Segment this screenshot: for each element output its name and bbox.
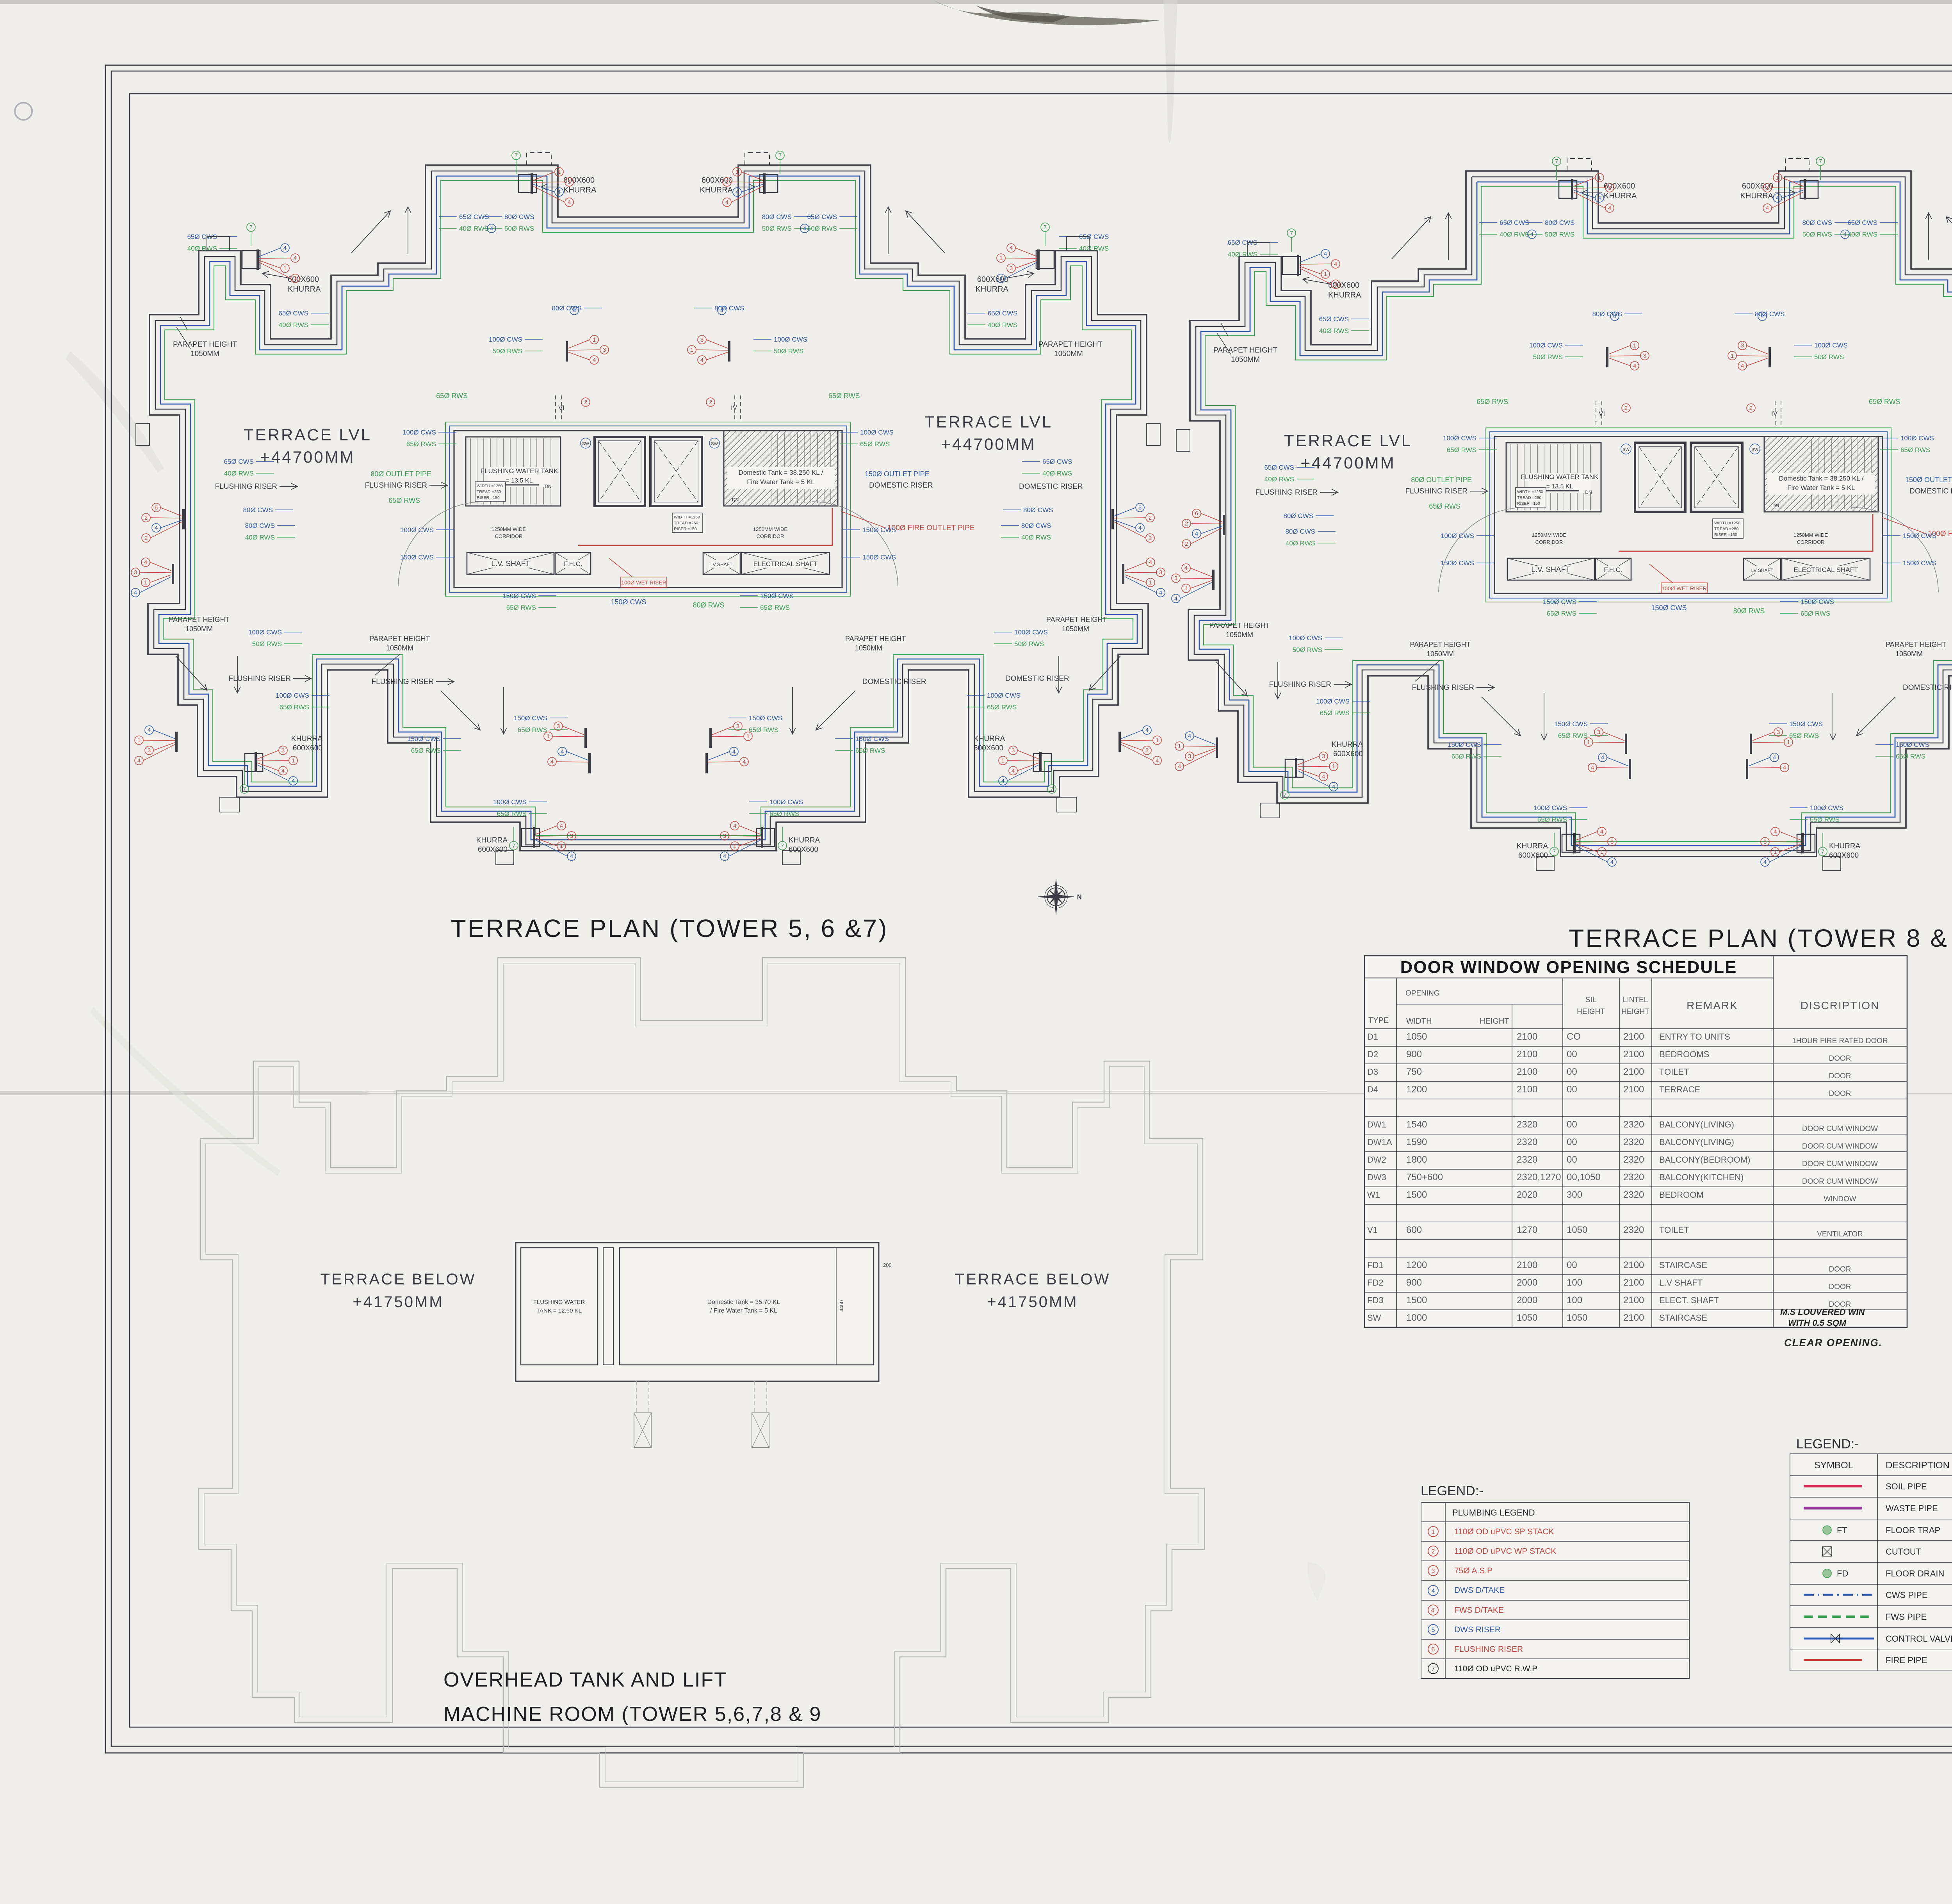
svg-text:65Ø RWS: 65Ø RWS xyxy=(518,726,547,734)
direction arrows plan T89 xyxy=(1392,217,1431,259)
svg-text:FLUSHING RISER: FLUSHING RISER xyxy=(372,678,434,686)
svg-text:65Ø RWS: 65Ø RWS xyxy=(1537,816,1567,823)
svg-text:1050MM: 1050MM xyxy=(1427,650,1454,658)
svg-text:4: 4 xyxy=(1783,764,1786,771)
svg-text:DOOR: DOOR xyxy=(1829,1265,1851,1273)
svg-text:PLUMBING LEGEND: PLUMBING LEGEND xyxy=(1452,1508,1535,1518)
svg-text:65Ø RWS: 65Ø RWS xyxy=(497,810,527,818)
stair room with flushing water tank, plan T89 xyxy=(1506,443,1601,512)
svg-text:100Ø CWS: 100Ø CWS xyxy=(1289,634,1322,642)
svg-text:DWS RISER: DWS RISER xyxy=(1454,1625,1501,1634)
svg-text:2: 2 xyxy=(144,515,148,521)
svg-text:7: 7 xyxy=(1050,786,1053,793)
parapet tabs plan T89 xyxy=(1247,242,1270,256)
svg-text:7: 7 xyxy=(243,786,246,793)
svg-text:1250MM WIDE: 1250MM WIDE xyxy=(1532,532,1566,538)
svg-text:100Ø CWS: 100Ø CWS xyxy=(276,692,309,699)
svg-text:WIDTH =1250: WIDTH =1250 xyxy=(674,515,700,520)
tank room support legs xyxy=(634,1413,651,1448)
svg-text:4: 4 xyxy=(155,525,158,531)
svg-text:4: 4 xyxy=(1591,764,1594,771)
svg-text:150Ø CWS: 150Ø CWS xyxy=(1554,720,1588,728)
svg-text:KHURRA: KHURRA xyxy=(700,186,733,194)
svg-text:1: 1 xyxy=(1787,739,1790,746)
svg-text:RISER =150: RISER =150 xyxy=(1517,501,1540,506)
overhead-tank level: faint terrace outline right wing (mirrored) xyxy=(126,958,1204,1787)
svg-text:DOMESTIC RISER: DOMESTIC RISER xyxy=(1005,675,1069,683)
svg-text:1: 1 xyxy=(593,337,596,343)
svg-text:2320: 2320 xyxy=(1623,1154,1644,1165)
svg-text:1: 1 xyxy=(1776,175,1779,181)
svg-text:2100: 2100 xyxy=(1623,1260,1644,1270)
VI/IV shaft dashes plan T567 xyxy=(555,395,556,420)
svg-text:4: 4 xyxy=(803,225,806,232)
svg-text:65Ø RWS: 65Ø RWS xyxy=(1558,732,1588,739)
svg-text:65Ø RWS: 65Ø RWS xyxy=(1900,446,1930,454)
svg-text:80Ø CWS: 80Ø CWS xyxy=(504,213,534,221)
svg-text:Fire Water Tank = 5 KL: Fire Water Tank = 5 KL xyxy=(747,478,814,486)
svg-text:2100: 2100 xyxy=(1623,1067,1644,1077)
svg-text:3: 3 xyxy=(1597,729,1600,736)
svg-text:1000: 1000 xyxy=(1406,1313,1427,1323)
svg-text:65Ø RWS: 65Ø RWS xyxy=(1320,709,1350,717)
svg-text:+41750MM: +41750MM xyxy=(987,1293,1078,1311)
svg-text:4: 4 xyxy=(1159,590,1162,596)
svg-text:100Ø FIRE OUTLET PIPE: 100Ø FIRE OUTLET PIPE xyxy=(887,524,975,532)
svg-text:4: 4 xyxy=(1156,757,1159,764)
svg-text:4: 4 xyxy=(1598,195,1601,201)
khurra boxes plan T567 xyxy=(242,251,260,269)
svg-text:40Ø RWS: 40Ø RWS xyxy=(245,534,275,541)
inter-arm parapet dashes, plan T89 xyxy=(1601,223,1776,223)
svg-text:SW: SW xyxy=(1751,447,1758,452)
svg-text:RISER =150: RISER =150 xyxy=(674,527,697,531)
svg-text:50Ø RWS: 50Ø RWS xyxy=(504,225,534,232)
svg-text:1050: 1050 xyxy=(1567,1225,1587,1235)
svg-text:TREAD =250: TREAD =250 xyxy=(1517,495,1541,500)
svg-text:600X600: 600X600 xyxy=(293,744,322,752)
svg-text:1: 1 xyxy=(547,733,550,740)
svg-text:DOOR CUM WINDOW: DOOR CUM WINDOW xyxy=(1802,1177,1878,1186)
svg-text:Fire Water Tank = 5 KL: Fire Water Tank = 5 KL xyxy=(1787,484,1855,492)
svg-text:7: 7 xyxy=(1283,792,1286,798)
svg-text:7: 7 xyxy=(1819,158,1822,165)
svg-text:3: 3 xyxy=(1610,839,1614,845)
svg-text:3: 3 xyxy=(570,833,573,839)
svg-text:100Ø CWS: 100Ø CWS xyxy=(1533,804,1567,812)
svg-text:80Ø CWS: 80Ø CWS xyxy=(243,506,273,514)
svg-text:600X600: 600X600 xyxy=(977,275,1008,284)
svg-text:600X600: 600X600 xyxy=(1829,851,1859,860)
svg-text:1270: 1270 xyxy=(1517,1225,1537,1235)
khurra boxes plan T89 xyxy=(1282,256,1300,274)
svg-text:50Ø RWS: 50Ø RWS xyxy=(762,225,792,232)
svg-text:3: 3 xyxy=(1188,753,1191,760)
svg-text:4: 4 xyxy=(568,199,571,206)
svg-text:2: 2 xyxy=(1432,1548,1435,1555)
svg-text:FLUSHING WATER TANK: FLUSHING WATER TANK xyxy=(1521,473,1599,481)
svg-text:100Ø WET RISER: 100Ø WET RISER xyxy=(621,579,666,586)
svg-text:3: 3 xyxy=(1012,747,1015,754)
tower plan T89 inner parapet line xyxy=(1194,177,1952,851)
wet riser (red) plan T89 xyxy=(1619,514,1873,551)
svg-text:2100: 2100 xyxy=(1623,1031,1644,1042)
svg-text:4: 4 xyxy=(1776,195,1779,201)
svg-text:1050MM: 1050MM xyxy=(1054,350,1083,358)
svg-text:4: 4 xyxy=(1149,559,1152,566)
svg-text:600X600: 600X600 xyxy=(789,846,818,854)
svg-text:110Ø OD uPVC SP STACK: 110Ø OD uPVC SP STACK xyxy=(1454,1527,1554,1536)
svg-text:7: 7 xyxy=(512,842,515,849)
svg-text:STAIRCASE: STAIRCASE xyxy=(1659,1260,1707,1270)
stair data box 2, plan T89 xyxy=(1713,519,1743,538)
svg-text:150Ø CWS: 150Ø CWS xyxy=(1801,598,1834,606)
svg-text:WIDTH =1250: WIDTH =1250 xyxy=(1517,490,1543,494)
svg-text:110Ø OD uPVC R.W.P: 110Ø OD uPVC R.W.P xyxy=(1454,1664,1537,1673)
svg-text:L.V. SHAFT: L.V. SHAFT xyxy=(491,560,530,568)
svg-text:7: 7 xyxy=(1290,230,1293,237)
svg-text:BEDROOMS: BEDROOMS xyxy=(1659,1049,1709,1059)
svg-text:7: 7 xyxy=(1432,1666,1435,1672)
svg-text:SW: SW xyxy=(1623,447,1630,452)
tower plan T567 CWS pipe (blue) xyxy=(159,176,1137,840)
svg-text:IV: IV xyxy=(731,404,737,411)
tower plan T567 RWS pipe (green) xyxy=(163,180,1133,835)
svg-text:4: 4 xyxy=(144,559,147,566)
svg-text:50Ø RWS: 50Ø RWS xyxy=(1802,231,1832,238)
svg-text:W1: W1 xyxy=(1367,1190,1380,1200)
svg-text:65Ø RWS: 65Ø RWS xyxy=(1869,398,1900,406)
svg-text:600X600: 600X600 xyxy=(288,275,319,284)
svg-text:65Ø CWS: 65Ø CWS xyxy=(988,310,1018,317)
svg-text:DOOR: DOOR xyxy=(1829,1072,1851,1080)
svg-text:FLUSHING RISER: FLUSHING RISER xyxy=(1269,680,1331,689)
svg-text:300: 300 xyxy=(1567,1190,1582,1200)
svg-text:80Ø CWS: 80Ø CWS xyxy=(245,522,275,529)
svg-text:1250MM WIDE: 1250MM WIDE xyxy=(1793,532,1828,538)
svg-text:DOMESTIC RISER: DOMESTIC RISER xyxy=(1909,487,1952,495)
svg-text:150Ø CWS: 150Ø CWS xyxy=(1789,720,1823,728)
svg-text:SW: SW xyxy=(582,442,589,446)
svg-text:80Ø CWS: 80Ø CWS xyxy=(1021,522,1051,529)
svg-text:2320: 2320 xyxy=(1517,1119,1537,1130)
svg-text:50Ø RWS: 50Ø RWS xyxy=(252,640,282,648)
svg-text:4: 4 xyxy=(1761,313,1764,320)
riser clusters plan T89 xyxy=(1212,570,1215,590)
svg-text:MACHINE ROOM (TOWER 5,6,7,8 &: MACHINE ROOM (TOWER 5,6,7,8 & 9 xyxy=(443,1703,821,1726)
svg-text:2100: 2100 xyxy=(1623,1277,1644,1288)
svg-text:50Ø RWS: 50Ø RWS xyxy=(493,347,522,355)
svg-text:TOILET: TOILET xyxy=(1659,1067,1689,1077)
svg-text:CORRIDOR: CORRIDOR xyxy=(495,533,523,539)
svg-text:4: 4 xyxy=(573,307,576,314)
svg-text:DOMESTIC RISER: DOMESTIC RISER xyxy=(1903,684,1952,692)
svg-text:65Ø RWS: 65Ø RWS xyxy=(1452,753,1481,760)
svg-text:2320,1270: 2320,1270 xyxy=(1517,1172,1561,1183)
svg-text:80Ø CWS: 80Ø CWS xyxy=(762,213,792,221)
svg-text:2: 2 xyxy=(1749,405,1753,411)
svg-text:HEIGHT: HEIGHT xyxy=(1480,1017,1509,1026)
svg-text:F.H.C.: F.H.C. xyxy=(564,560,582,568)
svg-text:2: 2 xyxy=(1624,405,1628,411)
tower plan outline T567 (parapet) xyxy=(148,165,1148,851)
svg-text:PARAPET HEIGHT: PARAPET HEIGHT xyxy=(169,616,229,623)
svg-text:3: 3 xyxy=(1174,575,1177,582)
svg-text:65Ø RWS: 65Ø RWS xyxy=(1429,502,1460,510)
svg-text:1HOUR FIRE RATED DOOR: 1HOUR FIRE RATED DOOR xyxy=(1792,1037,1888,1045)
svg-text:65Ø RWS: 65Ø RWS xyxy=(760,604,790,611)
svg-text:DW2: DW2 xyxy=(1367,1155,1386,1165)
svg-text:VENTILATOR: VENTILATOR xyxy=(1817,1230,1863,1238)
svg-text:2320: 2320 xyxy=(1517,1137,1537,1147)
svg-text:1: 1 xyxy=(1432,1529,1435,1535)
compass rose 1 xyxy=(1038,879,1082,915)
svg-text:ELECT. SHAFT: ELECT. SHAFT xyxy=(1659,1295,1719,1305)
svg-text:200: 200 xyxy=(883,1262,892,1268)
svg-text:6: 6 xyxy=(155,504,158,511)
svg-text:3: 3 xyxy=(1432,1568,1435,1574)
svg-text:750+600: 750+600 xyxy=(1406,1172,1443,1183)
svg-text:DOOR CUM WINDOW: DOOR CUM WINDOW xyxy=(1802,1142,1878,1151)
svg-text:3: 3 xyxy=(1010,265,1013,272)
svg-text:4: 4 xyxy=(570,853,573,860)
svg-text:FD: FD xyxy=(1837,1569,1848,1578)
svg-text:2100: 2100 xyxy=(1517,1084,1537,1095)
svg-text:CLEAR OPENING.: CLEAR OPENING. xyxy=(1784,1337,1883,1348)
svg-text:1050MM: 1050MM xyxy=(386,644,413,652)
svg-text:40Ø RWS: 40Ø RWS xyxy=(187,245,217,252)
svg-text:4: 4 xyxy=(134,590,137,596)
svg-text:KHURRA: KHURRA xyxy=(1740,192,1774,200)
svg-text:IV: IV xyxy=(1771,410,1778,417)
svg-text:PARAPET HEIGHT: PARAPET HEIGHT xyxy=(1213,346,1277,354)
svg-text:2: 2 xyxy=(1185,541,1188,547)
svg-text:1050: 1050 xyxy=(1517,1313,1537,1323)
svg-text:600X600: 600X600 xyxy=(1333,750,1363,758)
svg-text:4: 4 xyxy=(1613,313,1616,320)
svg-text:65Ø RWS: 65Ø RWS xyxy=(436,392,468,400)
svg-text:1: 1 xyxy=(1600,849,1603,855)
tower plan outline T89 (parapet) xyxy=(1188,171,1952,857)
svg-text:KHURRA: KHURRA xyxy=(789,836,820,844)
svg-text:4: 4 xyxy=(1633,363,1636,369)
svg-text:4: 4 xyxy=(1763,859,1767,866)
svg-text:6: 6 xyxy=(1195,510,1198,517)
svg-text:3: 3 xyxy=(1322,753,1325,760)
svg-text:2320: 2320 xyxy=(1623,1190,1644,1200)
svg-text:1: 1 xyxy=(1731,353,1734,359)
svg-text:FLUSHING WATER TANK: FLUSHING WATER TANK xyxy=(481,467,558,475)
svg-text:40Ø RWS: 40Ø RWS xyxy=(1228,251,1257,258)
svg-text:WASTE PIPE: WASTE PIPE xyxy=(1886,1503,1938,1513)
svg-text:1500: 1500 xyxy=(1406,1295,1427,1306)
svg-text:CUTOUT: CUTOUT xyxy=(1886,1547,1921,1557)
svg-text:2100: 2100 xyxy=(1623,1295,1644,1306)
svg-text:1250MM WIDE: 1250MM WIDE xyxy=(492,526,526,532)
svg-text:65Ø CWS: 65Ø CWS xyxy=(278,310,308,317)
svg-text:PARAPET HEIGHT: PARAPET HEIGHT xyxy=(1410,641,1470,648)
corridor door swing arcs plan T567 xyxy=(398,502,484,586)
svg-text:TREAD =250: TREAD =250 xyxy=(1714,527,1738,531)
svg-text:2: 2 xyxy=(709,399,712,406)
svg-text:3: 3 xyxy=(1777,729,1780,736)
svg-text:100Ø CWS: 100Ø CWS xyxy=(1810,804,1843,812)
svg-text:3: 3 xyxy=(1766,185,1769,191)
svg-text:DISCRIPTION: DISCRIPTION xyxy=(1801,999,1879,1012)
svg-text:80Ø CWS: 80Ø CWS xyxy=(1545,219,1575,226)
svg-text:4: 4 xyxy=(137,757,141,764)
svg-text:REMARK: REMARK xyxy=(1687,999,1738,1012)
svg-text:1050: 1050 xyxy=(1567,1313,1587,1323)
svg-text:150Ø CWS: 150Ø CWS xyxy=(1441,559,1474,567)
svg-text:4: 4 xyxy=(1012,768,1015,774)
svg-text:50Ø RWS: 50Ø RWS xyxy=(1014,640,1044,648)
svg-text:100Ø WET RISER: 100Ø WET RISER xyxy=(1662,585,1707,591)
svg-text:4: 4 xyxy=(1322,773,1325,780)
svg-text:100Ø CWS: 100Ø CWS xyxy=(1014,629,1048,636)
svg-text:100Ø CWS: 100Ø CWS xyxy=(774,336,807,343)
svg-text:KHURRA: KHURRA xyxy=(974,735,1005,743)
svg-text:FLUSHING RISER: FLUSHING RISER xyxy=(1454,1645,1523,1654)
svg-text:BEDROOM: BEDROOM xyxy=(1659,1190,1704,1200)
svg-text:DWS D/TAKE: DWS D/TAKE xyxy=(1454,1586,1505,1595)
svg-text:150Ø CWS: 150Ø CWS xyxy=(611,598,646,606)
svg-text:65Ø CWS: 65Ø CWS xyxy=(1264,464,1294,471)
domestic/fire water tank room (hatched), plan T567 xyxy=(724,431,838,506)
svg-text:110Ø OD uPVC WP STACK: 110Ø OD uPVC WP STACK xyxy=(1454,1547,1556,1556)
svg-text:D1: D1 xyxy=(1367,1032,1378,1042)
svg-text:4: 4 xyxy=(1432,1588,1435,1594)
svg-text:1: 1 xyxy=(690,347,693,353)
direction arrows plan T567 xyxy=(351,211,390,253)
svg-text:DOOR WINDOW OPENING SCHEDULE: DOOR WINDOW OPENING SCHEDULE xyxy=(1400,958,1737,977)
svg-text:TERRACE LVL: TERRACE LVL xyxy=(244,426,372,444)
svg-text:TERRACE PLAN (TOWER 8 & 9): TERRACE PLAN (TOWER 8 & 9) xyxy=(1569,924,1952,952)
svg-text:65Ø RWS: 65Ø RWS xyxy=(1547,610,1576,617)
svg-text:+44700MM: +44700MM xyxy=(1300,454,1395,472)
svg-text:65Ø RWS: 65Ø RWS xyxy=(860,440,890,448)
svg-text:ELECTRICAL SHAFT: ELECTRICAL SHAFT xyxy=(753,560,818,568)
svg-text:L.V SHAFT: L.V SHAFT xyxy=(1659,1278,1703,1288)
svg-text:3: 3 xyxy=(1334,281,1337,288)
svg-text:65Ø RWS: 65Ø RWS xyxy=(280,704,309,711)
svg-text:1050MM: 1050MM xyxy=(1231,356,1260,364)
svg-text:BALCONY(KITCHEN): BALCONY(KITCHEN) xyxy=(1659,1172,1744,1182)
svg-text:1: 1 xyxy=(1184,585,1188,592)
svg-text:BALCONY(LIVING): BALCONY(LIVING) xyxy=(1659,1120,1734,1129)
svg-text:50Ø RWS: 50Ø RWS xyxy=(1545,231,1574,238)
svg-text:600X600: 600X600 xyxy=(974,744,1003,752)
svg-text:40Ø RWS: 40Ø RWS xyxy=(1021,534,1051,541)
svg-text:DN: DN xyxy=(732,497,739,502)
svg-text:1: 1 xyxy=(1178,743,1181,750)
core block plan T567: outer walls + pipe wrap xyxy=(445,422,851,596)
shaft row: L.V. shaft / F.H.C. / LV shaft / electrical shaft, plan T89 xyxy=(1507,558,1594,580)
svg-text:TERRACE LVL: TERRACE LVL xyxy=(1284,431,1412,450)
svg-text:4: 4 xyxy=(1766,205,1769,212)
svg-text:4: 4 xyxy=(733,823,736,829)
svg-text:KHURRA: KHURRA xyxy=(563,186,597,194)
tower plan T89 RWS pipe (green) xyxy=(1204,186,1952,841)
svg-text:SW: SW xyxy=(711,442,718,446)
wet riser (red) plan T567 xyxy=(578,508,832,545)
svg-text:PARAPET HEIGHT: PARAPET HEIGHT xyxy=(1046,616,1107,623)
corridor door swing arcs plan T89 xyxy=(1439,508,1525,592)
svg-text:4: 4 xyxy=(720,307,723,314)
svg-text:50Ø RWS: 50Ø RWS xyxy=(1533,353,1563,361)
svg-text:= 13.5 KL: = 13.5 KL xyxy=(1546,483,1573,490)
svg-text:50Ø RWS: 50Ø RWS xyxy=(774,347,803,355)
svg-text:+44700MM: +44700MM xyxy=(260,448,355,466)
svg-text:100Ø CWS: 100Ø CWS xyxy=(493,798,527,806)
svg-text:3: 3 xyxy=(1741,342,1744,349)
svg-text:3: 3 xyxy=(1763,839,1767,845)
svg-text:600: 600 xyxy=(1406,1225,1422,1235)
svg-text:2100: 2100 xyxy=(1517,1260,1537,1270)
svg-text:F.H.C.: F.H.C. xyxy=(1604,566,1622,574)
svg-text:65Ø RWS: 65Ø RWS xyxy=(855,747,885,754)
svg-text:3: 3 xyxy=(1145,747,1149,754)
svg-text:D4: D4 xyxy=(1367,1085,1378,1094)
svg-text:1050MM: 1050MM xyxy=(191,350,219,358)
svg-text:1: 1 xyxy=(292,757,295,764)
stair data box 2, plan T567 xyxy=(672,513,703,533)
svg-text:2320: 2320 xyxy=(1623,1172,1644,1183)
svg-text:DOMESTIC RISER: DOMESTIC RISER xyxy=(869,481,933,490)
svg-text:1: 1 xyxy=(1633,342,1636,349)
svg-text:3: 3 xyxy=(294,275,297,282)
tower plan T567 inner parapet line xyxy=(154,171,1142,845)
svg-text:150Ø CWS: 150Ø CWS xyxy=(760,592,794,600)
svg-text:4: 4 xyxy=(1195,531,1198,537)
svg-text:4: 4 xyxy=(1188,733,1191,739)
svg-text:40Ø RWS: 40Ø RWS xyxy=(224,470,254,477)
svg-text:+41750MM: +41750MM xyxy=(353,1293,443,1311)
svg-text:4: 4 xyxy=(1010,245,1013,251)
svg-text:1050MM: 1050MM xyxy=(1226,631,1253,639)
svg-text:80Ø OUTLET PIPE: 80Ø OUTLET PIPE xyxy=(370,470,431,478)
svg-text:3: 3 xyxy=(148,747,151,754)
svg-text:2000: 2000 xyxy=(1517,1277,1537,1288)
lift shafts, plan T89 xyxy=(1635,443,1685,512)
svg-text:2100: 2100 xyxy=(1517,1049,1537,1060)
svg-text:65Ø CWS: 65Ø CWS xyxy=(1319,315,1349,323)
svg-text:65Ø RWS: 65Ø RWS xyxy=(1896,753,1925,760)
svg-text:40Ø RWS: 40Ø RWS xyxy=(279,321,308,329)
svg-text:4: 4 xyxy=(1600,828,1603,835)
svg-text:4: 4 xyxy=(1843,231,1847,238)
svg-text:2: 2 xyxy=(1149,515,1152,521)
svg-text:TERRACE BELOW: TERRACE BELOW xyxy=(955,1271,1111,1288)
svg-text:WIDTH: WIDTH xyxy=(1406,1017,1432,1026)
svg-text:1: 1 xyxy=(283,265,287,272)
svg-text:3: 3 xyxy=(700,337,704,343)
svg-text:LINTEL: LINTEL xyxy=(1623,996,1648,1004)
svg-text:150Ø CWS: 150Ø CWS xyxy=(749,714,782,722)
svg-text:600X600: 600X600 xyxy=(1328,281,1359,290)
svg-text:DOOR CUM WINDOW: DOOR CUM WINDOW xyxy=(1802,1125,1878,1133)
svg-text:7: 7 xyxy=(778,152,782,159)
svg-text:2320: 2320 xyxy=(1517,1154,1537,1165)
svg-text:1: 1 xyxy=(1774,849,1777,855)
svg-text:FLUSHING WATER: FLUSHING WATER xyxy=(533,1299,585,1306)
svg-text:1: 1 xyxy=(1001,757,1004,764)
svg-text:50Ø RWS: 50Ø RWS xyxy=(1814,353,1844,361)
svg-text:2: 2 xyxy=(144,535,148,541)
svg-text:Domestic Tank = 38.250 KL /: Domestic Tank = 38.250 KL / xyxy=(739,469,823,476)
svg-text:150Ø CWS: 150Ø CWS xyxy=(514,714,547,722)
svg-text:L.V. SHAFT: L.V. SHAFT xyxy=(1531,566,1570,574)
